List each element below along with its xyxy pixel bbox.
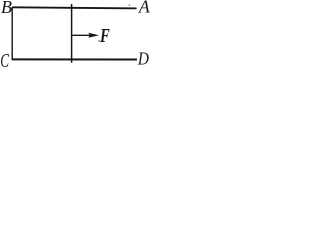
speck noise above top rail <box>129 5 130 6</box>
force arrow F shaft <box>72 34 91 36</box>
wire: left side B–C <box>11 7 13 60</box>
speck noise near arrowhead <box>98 40 99 41</box>
wire: top rail B–A <box>12 7 136 8</box>
force arrow F head <box>88 33 99 38</box>
svg-text:A: A <box>138 0 150 17</box>
wire: bottom rail C–D <box>12 58 137 60</box>
rod: sliding conductor <box>71 4 73 63</box>
svg-text:F: F <box>99 25 110 47</box>
svg-text:B: B <box>1 0 12 17</box>
svg-text:D: D <box>137 49 149 69</box>
svg-text:C: C <box>0 51 9 70</box>
